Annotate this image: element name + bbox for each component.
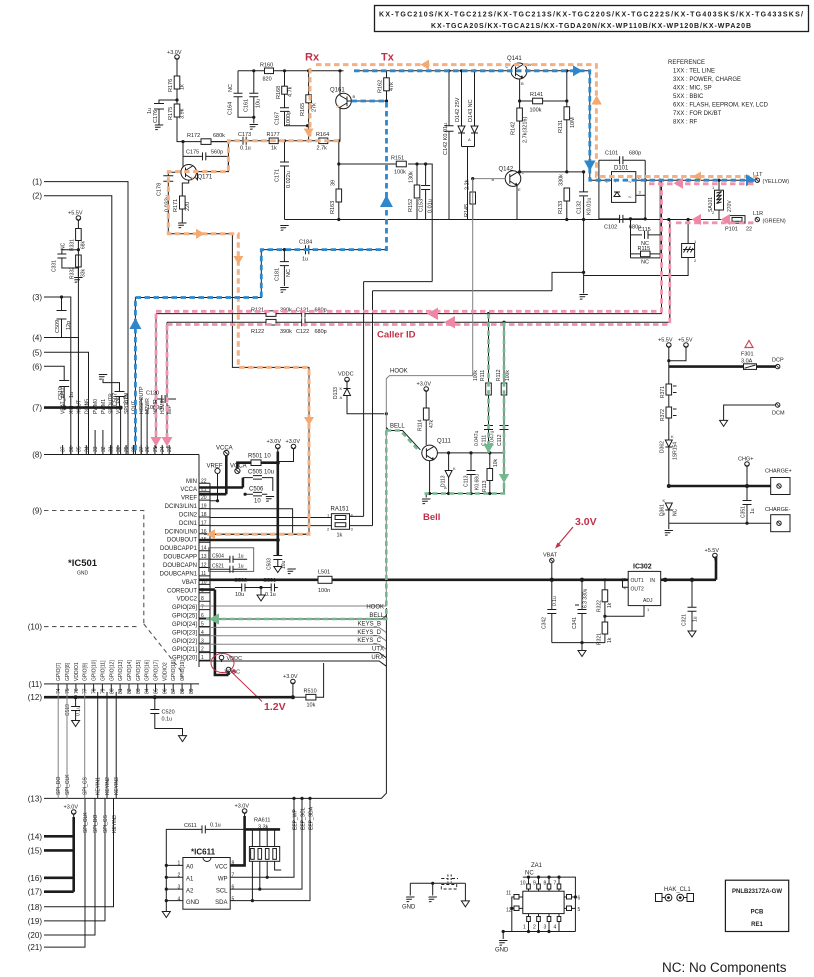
wire SPI_CS	[84, 692, 86, 799]
svg-text:D142 25V: D142 25V	[455, 97, 461, 122]
resistor R331	[70, 229, 87, 252]
IC501 top pin row numbers+labels	[61, 386, 174, 452]
wire orange Rx mid path	[168, 68, 338, 534]
svg-text:C331: C331	[52, 260, 58, 272]
svg-text:GPIO[13]: GPIO[13]	[118, 660, 124, 681]
wire Q142 collector row	[517, 172, 584, 220]
svg-text:OUT1: OUT1	[631, 578, 645, 584]
svg-text:C115: C115	[638, 227, 651, 233]
svg-text:C164: C164	[228, 102, 234, 115]
resistor R171	[173, 180, 191, 228]
svg-text:82: 82	[127, 688, 133, 694]
svg-text:K0.01u: K0.01u	[587, 198, 593, 215]
capacitor NC dashed	[441, 875, 458, 890]
svg-text:1000p: 1000p	[286, 111, 292, 126]
svg-text:R111: R111	[480, 370, 486, 381]
wire blue Tx base path	[135, 101, 386, 452]
power +3.0V pair	[267, 439, 301, 462]
svg-text:HOOK: HOOK	[366, 605, 384, 611]
svg-text:78: 78	[92, 688, 98, 694]
wire top rail to corner	[354, 71, 590, 180]
wire rows 14-17 thick	[44, 817, 74, 892]
resistor R152 + capacitor C153	[408, 162, 434, 219]
svg-text:R142: R142	[511, 122, 517, 135]
svg-text:GPIO[14]: GPIO[14]	[127, 660, 133, 681]
capacitor C122	[296, 318, 327, 335]
capacitor C173	[211, 132, 269, 152]
open ground	[464, 883, 466, 901]
arrow green down R112	[499, 474, 509, 483]
svg-text:HOOK: HOOK	[390, 369, 408, 375]
svg-text:KEYS_D: KEYS_D	[357, 630, 381, 636]
svg-text:PWM0: PWM0	[93, 399, 99, 414]
svg-text:CHG+: CHG+	[738, 457, 753, 463]
svg-text:35: 35	[77, 446, 83, 452]
svg-text:DCIN1: DCIN1	[179, 521, 198, 527]
terminal L1T	[753, 172, 789, 185]
svg-text:DCM: DCM	[772, 411, 785, 417]
svg-text:A: A	[468, 137, 471, 142]
svg-text:PWM1: PWM1	[101, 399, 107, 414]
svg-text:KX-TGC210S/KX-TGC212S/KX-TGC21: KX-TGC210S/KX-TGC212S/KX-TGC213S/KX-TGC2…	[379, 12, 803, 19]
wire pink L1R tail	[670, 221, 754, 224]
svg-text:*IC611: *IC611	[191, 848, 216, 857]
svg-text:DOUBCAPN: DOUBCAPN	[163, 563, 197, 569]
svg-text:MIN: MIN	[186, 479, 197, 485]
svg-text:GPIO[16]: GPIO[16]	[145, 660, 151, 681]
svg-text:R122: R122	[251, 329, 264, 335]
svg-text:820: 820	[263, 77, 272, 83]
wire BELL row	[199, 616, 386, 620]
resistor R121	[251, 308, 292, 317]
svg-text:R141: R141	[530, 92, 543, 98]
svg-text:KEYIN1: KEYIN1	[96, 777, 102, 795]
svg-text:Q141: Q141	[507, 56, 522, 62]
svg-text:C142 K0.01u: C142 K0.01u	[443, 123, 449, 155]
svg-text:(11): (11)	[28, 680, 42, 689]
svg-text:B: B	[353, 94, 356, 99]
svg-text:D143 NC: D143 NC	[468, 99, 474, 122]
svg-text:R131: R131	[558, 120, 564, 133]
svg-text:+3.0V: +3.0V	[417, 382, 432, 388]
svg-text:C171: C171	[275, 169, 281, 182]
resistor R165	[300, 69, 318, 142]
capacitor C331	[52, 242, 79, 272]
resistor R168	[276, 69, 294, 99]
svg-text:VBAT: VBAT	[182, 580, 198, 586]
wire (7) thick rail	[44, 406, 121, 409]
svg-text:L501: L501	[318, 570, 330, 576]
capacitor C342b VBAT drop	[551, 579, 553, 581]
capacitor C142	[443, 69, 454, 219]
svg-text:GPIO[12]: GPIO[12]	[109, 660, 115, 681]
svg-text:SPOUTP: SPOUTP	[109, 393, 115, 414]
svg-text:39: 39	[331, 180, 337, 186]
svg-text:(YELLOW): (YELLOW)	[763, 179, 790, 185]
resistor R176	[168, 76, 186, 92]
svg-text:OUT2: OUT2	[631, 587, 645, 593]
svg-text:0.1u: 0.1u	[552, 596, 558, 606]
capacitor C520	[150, 697, 186, 741]
svg-text:0.047u: 0.047u	[474, 430, 480, 446]
wire (6)	[44, 366, 64, 380]
svg-text:76: 76	[74, 688, 80, 694]
arrow blue right top	[573, 65, 583, 76]
svg-text:DCP: DCP	[772, 358, 784, 364]
svg-text:DOUBCAPP: DOUBCAPP	[163, 555, 197, 561]
svg-text:GPIO[8]: GPIO[8]	[65, 662, 71, 681]
svg-text:0.047u: 0.047u	[490, 430, 496, 446]
svg-text:C501: C501	[263, 578, 276, 584]
svg-text:1SR154: 1SR154	[673, 442, 679, 460]
svg-text:+3.0V: +3.0V	[286, 439, 301, 445]
svg-text:C502: C502	[234, 578, 247, 584]
bottom pins	[529, 914, 560, 932]
power VDDC pair + 1.2V	[211, 654, 286, 714]
svg-text:79: 79	[100, 688, 106, 694]
capacitor C184	[135, 240, 386, 455]
svg-text:1u: 1u	[750, 508, 756, 514]
svg-text:3.0V: 3.0V	[575, 516, 597, 528]
svg-text:7: 7	[554, 881, 557, 887]
svg-text:5: 5	[232, 897, 235, 903]
svg-text:K: K	[340, 386, 343, 391]
power +3.0V RA611	[235, 804, 250, 817]
wire PWM0 PWM1 stubs	[95, 430, 103, 445]
svg-text:31: 31	[109, 446, 115, 452]
resistor R160	[238, 63, 344, 83]
svg-text:(10): (10)	[28, 623, 43, 632]
svg-text:C113: C113	[464, 475, 470, 487]
svg-text:(13): (13)	[28, 794, 43, 803]
capacitor C112	[490, 423, 509, 494]
svg-text:B: B	[492, 177, 495, 182]
resistor R172	[187, 133, 225, 144]
svg-text:W: W	[528, 62, 532, 67]
IC501 dashed outline (9)/(10)	[44, 511, 182, 684]
svg-text:NC: NC	[641, 260, 649, 266]
resistor R151	[391, 156, 406, 176]
svg-text:220: 220	[185, 202, 191, 211]
power +3.0V bell	[417, 382, 432, 409]
svg-text:4.7k: 4.7k	[288, 86, 294, 97]
resistor R115	[631, 246, 661, 266]
svg-text:A2: A2	[186, 889, 194, 895]
wire (4) to XOUT	[44, 338, 79, 455]
svg-text:COREOUT: COREOUT	[167, 588, 197, 594]
wire signal bus down	[44, 608, 386, 798]
resistor R133	[558, 174, 570, 221]
svg-text:1k: 1k	[607, 602, 613, 608]
wire (1) to SPOUTN	[44, 182, 128, 455]
svg-text:37: 37	[61, 446, 67, 452]
resistor R145	[464, 177, 476, 220]
resistor R510	[293, 663, 324, 709]
svg-text:4XX : MIC, SP: 4XX : MIC, SP	[673, 86, 712, 92]
wire URX row	[199, 661, 386, 666]
arrow pink down pin24	[162, 437, 173, 447]
svg-text:HAK_CL1: HAK_CL1	[664, 887, 691, 893]
svg-text:C321: C321	[682, 614, 688, 626]
svg-text:DOUBCAPP1: DOUBCAPP1	[160, 546, 198, 552]
svg-text:77: 77	[83, 688, 89, 694]
svg-text:C505 10u: C505 10u	[248, 470, 274, 476]
svg-text:Bell: Bell	[423, 512, 440, 523]
svg-text:GPIO[11]: GPIO[11]	[100, 660, 106, 681]
svg-text:0.1u: 0.1u	[210, 823, 221, 829]
svg-text:VDDIO2: VDDIO2	[162, 662, 168, 681]
svg-text:80: 80	[109, 688, 115, 694]
ground small	[426, 897, 437, 902]
svg-text:68k: 68k	[81, 240, 87, 249]
svg-text:GPIO[7]: GPIO[7]	[56, 662, 62, 681]
wire KEYIN2	[106, 692, 108, 799]
svg-text:10: 10	[520, 881, 526, 887]
svg-text:(12): (12)	[28, 693, 43, 702]
arrow blue up left	[129, 318, 141, 329]
svg-text:SPI_CLK: SPI_CLK	[65, 774, 71, 795]
svg-text:10: 10	[254, 499, 261, 505]
resistor R162	[378, 71, 396, 103]
svg-text:R133: R133	[558, 201, 564, 214]
svg-text:C173: C173	[238, 132, 251, 138]
capacitor C342	[542, 580, 559, 643]
svg-text:R162: R162	[378, 80, 384, 93]
terminal L1R	[753, 211, 786, 225]
wire pink caller upper	[156, 184, 662, 312]
svg-text:0.1u: 0.1u	[265, 592, 276, 598]
svg-text:GPIO[21]: GPIO[21]	[172, 647, 197, 653]
svg-text:2.7k: 2.7k	[317, 146, 328, 152]
capacitor C164	[228, 71, 254, 118]
svg-text:R322: R322	[597, 600, 603, 612]
wire (11) row	[44, 683, 55, 685]
capacitor C181	[275, 250, 293, 293]
svg-text:VCCPA: VCCPA	[116, 396, 122, 414]
svg-text:R372: R372	[660, 409, 666, 421]
svg-text:3XX : POWER, CHARGE: 3XX : POWER, CHARGE	[673, 77, 741, 83]
capacitor C102	[599, 215, 690, 231]
svg-text:KX-TGCA20S/KX-TGCA21S/KX-TGDA2: KX-TGCA20S/KX-TGCA21S/KX-TGDA20N/KX-WP11…	[431, 23, 751, 30]
transistor Q171	[177, 165, 213, 181]
svg-text:GPIO[25]: GPIO[25]	[172, 614, 197, 620]
svg-text:100k: 100k	[473, 370, 479, 381]
svg-text:R113: R113	[482, 480, 488, 492]
svg-text:(20): (20)	[28, 931, 43, 940]
svg-text:81: 81	[118, 688, 124, 694]
svg-text:1XX : TEL LINE: 1XX : TEL LINE	[673, 69, 715, 75]
svg-text:GND: GND	[402, 905, 416, 911]
svg-text:VCC: VCC	[215, 865, 228, 871]
capacitor C167	[275, 94, 310, 127]
svg-text:R172: R172	[187, 133, 200, 139]
svg-text:1u: 1u	[693, 616, 699, 622]
svg-text:ZA1: ZA1	[531, 863, 543, 869]
svg-text:C351: C351	[741, 506, 747, 518]
svg-text:~: ~	[628, 180, 632, 186]
svg-text:(8): (8)	[32, 451, 42, 460]
svg-text:6: 6	[578, 896, 581, 902]
wire	[177, 117, 201, 172]
svg-text:0.022u: 0.022u	[286, 171, 292, 188]
power +5.5V left	[68, 211, 83, 229]
svg-text:BELL: BELL	[390, 424, 405, 430]
svg-text:(19): (19)	[28, 917, 43, 926]
transistor Q142	[492, 167, 525, 193]
svg-text:GPIO[23]: GPIO[23]	[172, 630, 197, 636]
svg-text:+3.0V: +3.0V	[167, 50, 182, 56]
capacitor C101	[599, 151, 645, 220]
svg-text:UTX: UTX	[372, 647, 384, 653]
svg-text:8XX : RF: 8XX : RF	[673, 120, 698, 126]
resistor R372	[660, 395, 677, 440]
svg-text:VCCA: VCCA	[180, 487, 197, 493]
varistor RV	[584, 220, 697, 276]
svg-text:R164: R164	[316, 132, 329, 138]
svg-text:100k: 100k	[394, 170, 406, 176]
svg-text:GND: GND	[77, 571, 89, 577]
svg-text:IN: IN	[650, 578, 655, 584]
svg-text:(14): (14)	[28, 832, 43, 841]
svg-text:0.1u: 0.1u	[162, 717, 173, 723]
svg-text:C175: C175	[186, 150, 199, 156]
wire VBAT rail	[199, 557, 716, 580]
svg-text:26: 26	[145, 446, 151, 452]
svg-text:100k: 100k	[505, 370, 511, 381]
svg-text:11: 11	[506, 891, 511, 897]
svg-text:C503: C503	[267, 558, 273, 570]
svg-text:(21): (21)	[28, 943, 43, 952]
svg-text:330k: 330k	[559, 174, 565, 186]
svg-text:SPOUTN: SPOUTN	[124, 393, 130, 414]
svg-text:C506: C506	[249, 487, 264, 493]
svg-text:VDDIO1: VDDIO1	[74, 662, 80, 681]
svg-text:27k: 27k	[312, 103, 318, 112]
label 3.0V red	[555, 516, 597, 549]
svg-text:VDDC: VDDC	[338, 372, 354, 378]
resistor R163	[330, 180, 342, 221]
svg-text:87: 87	[171, 688, 177, 694]
svg-text:K: K	[453, 466, 456, 471]
svg-text:390k: 390k	[280, 329, 292, 335]
resistor array RA611	[230, 816, 281, 901]
svg-text:(1): (1)	[32, 178, 42, 187]
svg-text:9: 9	[533, 881, 536, 887]
svg-text:VBAT: VBAT	[543, 553, 558, 559]
wire (12) supply row	[44, 696, 293, 699]
resistor R131	[558, 69, 576, 173]
top pins	[529, 877, 560, 891]
arrow pink left L1R	[692, 214, 702, 225]
svg-text:RE1: RE1	[751, 922, 763, 928]
svg-text:+5.5V: +5.5V	[68, 211, 83, 217]
svg-text:680k: 680k	[213, 133, 225, 139]
svg-text:Caller ID: Caller ID	[377, 330, 416, 341]
svg-text:EEP_SDA: EEP_SDA	[309, 806, 315, 830]
svg-text:C101: C101	[605, 151, 618, 157]
svg-text:NC: NC	[61, 242, 67, 250]
terminal CHARGE+	[765, 469, 792, 495]
svg-text:(16): (16)	[28, 874, 43, 883]
IC501 right pin column	[201, 478, 207, 661]
wire pink pin drops	[156, 314, 167, 438]
svg-text:R321: R321	[597, 633, 603, 645]
wire L1T row	[590, 179, 755, 181]
capacitor C505	[243, 470, 274, 492]
svg-text:1u: 1u	[302, 257, 308, 263]
svg-text:+3.0V: +3.0V	[267, 439, 282, 445]
arrow orange left L1T	[693, 172, 702, 182]
svg-text:3.0A: 3.0A	[741, 359, 753, 365]
wire	[176, 89, 178, 104]
wire L1T to caller upper	[661, 180, 663, 313]
wire IC611 right pins to EEP bus	[230, 798, 310, 900]
svg-text:22: 22	[746, 227, 752, 233]
capacitor C510	[58, 380, 75, 408]
svg-text:C167: C167	[275, 112, 281, 125]
fuse F301	[669, 352, 776, 370]
svg-text:R510: R510	[304, 689, 317, 695]
svg-text:A0: A0	[186, 865, 194, 871]
svg-text:R114: R114	[418, 419, 424, 431]
svg-text:1k: 1k	[271, 146, 277, 152]
svg-text:SDA: SDA	[215, 900, 227, 906]
svg-text:C341: C341	[572, 617, 578, 629]
capacitor C175	[183, 150, 228, 172]
svg-text:0.01u: 0.01u	[428, 199, 434, 213]
fuse P101	[725, 216, 752, 233]
svg-text:47k: 47k	[389, 82, 395, 91]
capacitor C111	[474, 423, 493, 453]
diode D113	[441, 453, 457, 494]
svg-text:83: 83	[136, 688, 142, 694]
connector HAK_CL1	[656, 887, 694, 902]
IC501 bottom pin row	[55, 683, 199, 685]
svg-text:47k: 47k	[429, 419, 435, 428]
wire collector row	[196, 142, 229, 180]
svg-text:RA151: RA151	[331, 507, 350, 513]
svg-text:1u: 1u	[238, 564, 244, 570]
svg-text:R371: R371	[660, 386, 666, 398]
power +3.0V at R510	[283, 674, 298, 697]
wire SPI_CLK	[66, 692, 68, 799]
svg-text:CHARGE-: CHARGE-	[765, 507, 791, 513]
svg-text:86: 86	[162, 688, 168, 694]
arrow orange left DCIN0	[207, 529, 216, 539]
capacitor C509	[55, 295, 72, 337]
svg-text:R160: R160	[260, 63, 273, 69]
diode bridge D101	[606, 166, 642, 203]
wire HSSPOUTP MPWR stubs	[141, 398, 147, 455]
svg-text:DOUBOUT: DOUBOUT	[167, 538, 197, 544]
terminal DCP	[772, 358, 784, 369]
svg-text:10u: 10u	[256, 99, 262, 108]
power +5.5V pair	[658, 338, 693, 367]
svg-text:4: 4	[554, 925, 557, 931]
wire D101 pin3	[636, 194, 645, 196]
regulator IC302	[603, 564, 665, 618]
wire caller id upper row	[156, 184, 662, 449]
svg-text:NC: NC	[525, 871, 534, 877]
svg-text:10M: 10M	[570, 117, 576, 128]
arrow blue down	[584, 161, 596, 172]
arrow green left BELL	[209, 613, 219, 624]
svg-text:KEYS_B: KEYS_B	[358, 621, 381, 627]
svg-text:R175: R175	[168, 107, 174, 120]
svg-text:EEP_WP: EEP_WP	[293, 808, 299, 830]
svg-text:6XX : FLASH, EEPROM, KEY, LCD: 6XX : FLASH, EEPROM, KEY, LCD	[673, 103, 769, 109]
svg-text:+3.0V: +3.0V	[235, 804, 250, 810]
